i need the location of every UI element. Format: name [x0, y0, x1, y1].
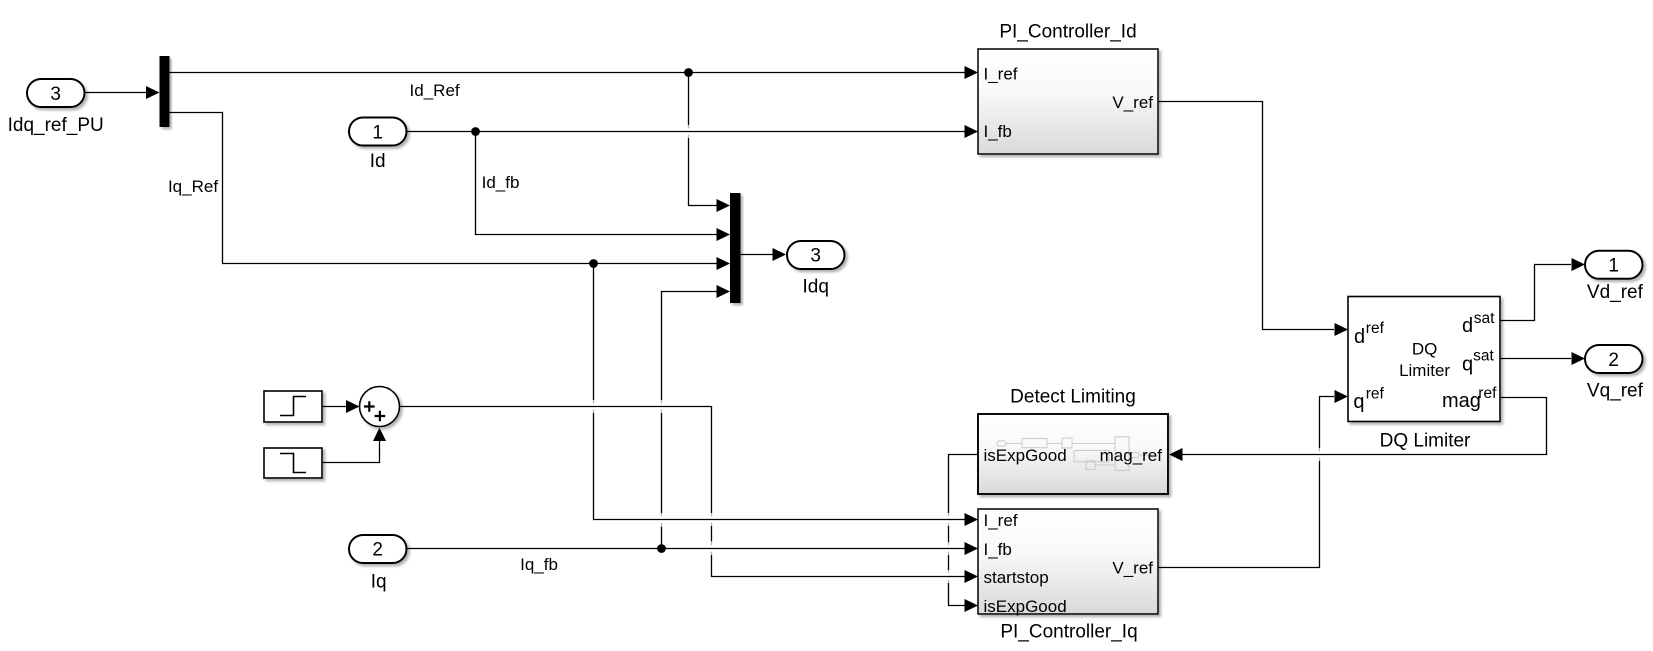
svg-text:d: d [1354, 326, 1365, 348]
svg-text:PI_Controller_Iq: PI_Controller_Iq [1000, 622, 1137, 643]
sum block [360, 387, 400, 427]
svg-text:d: d [1462, 315, 1473, 337]
step block Step2 (falling) [264, 448, 322, 478]
svg-text:isExpGood: isExpGood [984, 597, 1067, 616]
svg-text:V_ref: V_ref [1112, 559, 1153, 578]
wire Detect Limiting isExpGood to PI_Controller_Iq isExpGood [949, 455, 979, 613]
svg-text:DQ: DQ [1412, 340, 1438, 359]
outport 3 Idq [787, 241, 845, 298]
wire DQ q_sat to outport Vq_ref [1500, 352, 1585, 365]
svg-text:Iq: Iq [371, 572, 387, 593]
wire Id_fb branch to mux in2 [476, 132, 731, 242]
subsystem PI_Controller_Iq [978, 509, 1158, 643]
wire Id_Ref branch to mux in1 [689, 73, 731, 213]
svg-text:mag_ref: mag_ref [1100, 446, 1163, 465]
wire Idq_ref_PU to demux [85, 86, 160, 99]
svg-text:Id: Id [370, 151, 386, 172]
wire PI_Controller_Iq V_ref to DQ q_ref [1158, 390, 1348, 568]
mux [730, 193, 741, 303]
svg-text:1: 1 [372, 123, 383, 144]
inport 3 Idq_ref_PU [8, 79, 104, 136]
svg-text:mag: mag [1442, 390, 1481, 412]
svg-text:ref: ref [1478, 385, 1497, 402]
wire Step2 to sum [322, 428, 386, 463]
subsystem PI_Controller_Id [978, 22, 1158, 155]
svg-text:Iq_fb: Iq_fb [520, 555, 558, 574]
outport 2 Vq_ref [1585, 345, 1644, 402]
wire crossing fade stubs [594, 125, 1320, 583]
svg-text:I_ref: I_ref [984, 511, 1018, 530]
wire Iq to PI_Controller_Iq I_fb [407, 542, 979, 574]
svg-text:sat: sat [1474, 310, 1495, 327]
wire Step1 to sum [322, 400, 360, 413]
wire Id to PI_Controller_Id I_fb [407, 125, 979, 138]
subsystem DQ Limiter [1348, 297, 1500, 452]
wire Iq branch to mux in4 [662, 285, 731, 549]
svg-text:ref: ref [1366, 386, 1385, 403]
svg-text:I_fb: I_fb [984, 122, 1012, 141]
svg-text:2: 2 [372, 540, 383, 561]
wire sum to PI_Controller_Iq startstop [400, 407, 979, 584]
svg-text:Id_Ref: Id_Ref [410, 81, 460, 100]
svg-text:DQ Limiter: DQ Limiter [1380, 431, 1471, 452]
svg-text:Vd_ref: Vd_ref [1587, 282, 1644, 303]
svg-text:q: q [1353, 391, 1364, 413]
svg-text:3: 3 [50, 84, 61, 105]
outport 1 Vd_ref [1585, 251, 1644, 303]
junction on Id_Ref [684, 68, 693, 77]
svg-text:3: 3 [810, 246, 821, 267]
svg-text:Id_fb: Id_fb [482, 173, 520, 192]
junction on Iq [657, 544, 666, 553]
wire mux to outport Idq [741, 248, 787, 261]
wire PI_Controller_Id V_ref to DQ d_ref [1158, 102, 1348, 337]
svg-text:I_ref: I_ref [984, 65, 1018, 84]
svg-text:Idq_ref_PU: Idq_ref_PU [8, 115, 104, 136]
svg-text:Iq_Ref: Iq_Ref [168, 177, 218, 196]
svg-text:Detect Limiting: Detect Limiting [1010, 387, 1136, 408]
svg-text:Vq_ref: Vq_ref [1587, 381, 1644, 402]
svg-text:Idq: Idq [802, 277, 828, 298]
svg-text:Limiter: Limiter [1399, 361, 1450, 380]
svg-text:2: 2 [1608, 350, 1619, 371]
wire DQ mag_ref to Detect Limiting mag_ref [1169, 398, 1547, 462]
step block Step1 (rising) [264, 391, 322, 422]
svg-text:q: q [1462, 353, 1473, 375]
svg-text:startstop: startstop [984, 568, 1049, 587]
svg-text:I_fb: I_fb [984, 540, 1012, 559]
inport 1 Id [349, 118, 407, 173]
wire Iq_Ref branch to PI_Controller_Iq I_ref [594, 264, 979, 527]
svg-text:isExpGood: isExpGood [984, 446, 1067, 465]
svg-text:ref: ref [1366, 320, 1385, 337]
svg-text:PI_Controller_Id: PI_Controller_Id [999, 22, 1136, 43]
svg-text:1: 1 [1608, 256, 1619, 277]
subsystem Detect Limiting [978, 387, 1168, 495]
junction on Iq_Ref [589, 259, 598, 268]
svg-text:sat: sat [1473, 348, 1494, 365]
demux [160, 56, 170, 127]
wire Iq_Ref (demux out2 to mux in3) [168, 113, 730, 271]
junction on Id [471, 127, 480, 136]
inport 2 Iq [349, 535, 407, 593]
svg-text:V_ref: V_ref [1112, 93, 1153, 112]
wire Id_Ref (demux out1 to PI_Controller_Id I_ref) [170, 66, 979, 100]
wire DQ d_sat to outport Vd_ref [1500, 258, 1585, 321]
